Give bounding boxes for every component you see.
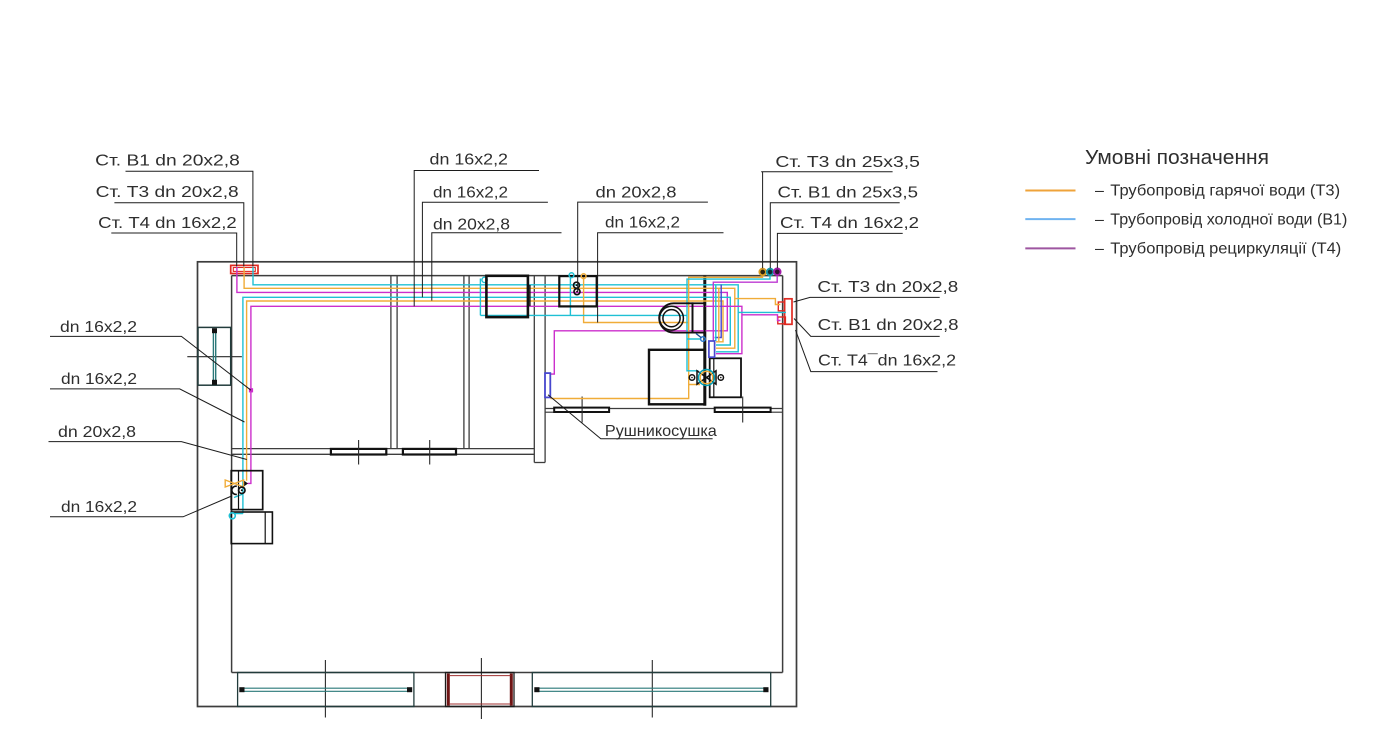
left sink fixture box 2 <box>231 512 272 544</box>
leader St.T3 TR <box>761 172 892 269</box>
stack T3 dot <box>759 269 766 276</box>
kitchen-bath wall bottom cap <box>534 462 545 464</box>
legend line B1 (blue) <box>1025 218 1075 220</box>
entry door red jamb right <box>510 674 513 706</box>
bathroom bottom wall stub left <box>545 411 554 413</box>
svg-text:Ст. Т4¯dn 16х2,2: Ст. Т4¯dn 16х2,2 <box>818 352 956 369</box>
riser stack dots <box>759 269 780 276</box>
window left frame <box>238 673 414 707</box>
leader towel label <box>548 395 713 439</box>
svg-text:–: – <box>1095 183 1104 200</box>
pipe B1 chase drop branch <box>715 285 717 341</box>
svg-text:Трубопровід холодної води (В1): Трубопровід холодної води (В1) <box>1110 211 1347 228</box>
tick room2 door <box>429 440 431 465</box>
left wall window <box>198 327 231 385</box>
left window glass cap bottom <box>212 380 217 385</box>
room bottom threshold bar 1 <box>331 449 386 455</box>
pipe T3 from riser (orange): down at WC wall to bath fixtures and towel dryer <box>550 268 762 399</box>
PIPES <box>234 267 786 514</box>
svg-text:Рушникосушка: Рушникосушка <box>605 423 717 440</box>
svg-text:dn 16х2,2: dn 16х2,2 <box>430 152 509 169</box>
legend line T3 (orange) <box>1025 190 1075 192</box>
pipe B1 blue branch into chase <box>715 285 722 338</box>
left fixture valve circle <box>239 487 245 493</box>
meter box cyan valve dot <box>569 273 574 278</box>
svg-text:dn 20х2,8: dn 20х2,8 <box>58 424 136 441</box>
svg-text:Ст. Т4 dn 16х2,2: Ст. Т4 dn 16х2,2 <box>780 215 919 232</box>
left fixture orange bowtie valve <box>225 480 243 487</box>
LEADER LINES <box>49 171 940 517</box>
water meter box <box>559 276 596 306</box>
pipe B1 lower run (cyan) with tee down to left fixture <box>243 297 730 513</box>
inner bottom wall <box>232 672 783 674</box>
partition wall B line2 <box>468 276 470 449</box>
svg-text:Трубопровід гарячої води (Т3): Трубопровід гарячої води (Т3) <box>1110 183 1340 200</box>
pipe B1 left fixture stub <box>234 494 243 514</box>
towel dryer <box>545 373 550 397</box>
toilet partition wall <box>703 276 706 406</box>
meter box orange valve dot <box>581 274 586 279</box>
pipe T4 to right connector <box>742 315 781 321</box>
tick room1 door <box>358 440 360 465</box>
entry door red jamb left <box>447 674 450 706</box>
bathroom threshold bar left <box>554 408 609 412</box>
rooms bottom wall line1 <box>232 448 535 450</box>
pipe T4 lower run (magenta) <box>248 306 742 483</box>
svg-text:–: – <box>1095 211 1104 228</box>
left window frame <box>198 327 231 385</box>
pipe B1 to right connector <box>738 311 786 313</box>
svg-text:dn 20х2,8: dn 20х2,8 <box>596 185 677 202</box>
window right glass cap L <box>534 687 539 692</box>
window left glass <box>241 687 412 689</box>
svg-text:Ст. Т3 dn 20х2,8: Ст. Т3 dn 20х2,8 <box>96 184 239 201</box>
pipe T3 meter drop <box>584 276 689 322</box>
heater connection tick <box>529 285 531 306</box>
BOTTOM WINDOWS AND DOOR <box>238 673 771 707</box>
svg-text:Ст. В1 dn 20х2,8: Ст. В1 dn 20х2,8 <box>95 153 240 170</box>
pipe B1 heater hook circle <box>482 277 487 282</box>
svg-text:dn 20х2,8: dn 20х2,8 <box>433 217 510 234</box>
leader left l1 <box>50 336 251 390</box>
pipe T4 from riser (magenta) down to chase <box>713 268 777 342</box>
leader dn16 m5 <box>598 233 724 323</box>
tick entry door <box>480 658 482 719</box>
leader St.B1 TL <box>126 171 253 266</box>
stack B1 dot <box>767 269 774 276</box>
bathroom bottom wall stub right <box>771 411 783 413</box>
entry door red bottom rail <box>449 703 511 705</box>
kitchen-bath wall line2 <box>544 276 546 463</box>
leader dn20 m4 <box>578 202 708 292</box>
tick bath door right <box>742 397 744 423</box>
leader St.B1 TR <box>770 203 899 269</box>
leader left l4 <box>50 497 231 517</box>
bath mixer valve assembly <box>689 371 723 384</box>
inner right wall <box>782 276 784 673</box>
entry door red top rail <box>449 675 511 677</box>
valve teal circle <box>699 370 715 386</box>
entry door frame <box>446 673 515 707</box>
window left glass cap R <box>407 687 412 692</box>
pipe B1 meter drop <box>569 275 571 315</box>
left sink fixture box 1 <box>231 471 263 510</box>
stack T4 dot <box>774 269 781 276</box>
svg-text:dn 16х2,2: dn 16х2,2 <box>60 319 137 336</box>
svg-text:dn 16х2,2: dn 16х2,2 <box>433 185 508 202</box>
svg-text:dn 16х2,2: dn 16х2,2 <box>61 499 137 516</box>
water meter 1 <box>574 282 580 288</box>
left window glass cap top <box>212 328 217 333</box>
bathroom bottom wall line <box>545 408 783 410</box>
bidet box <box>710 358 741 397</box>
LEGEND <box>1025 146 1347 258</box>
leader dn16 m1 <box>414 171 539 307</box>
svg-text:dn 16х2,2: dn 16х2,2 <box>61 371 137 388</box>
leader St.T3 right <box>794 297 940 302</box>
WALLS <box>198 262 797 707</box>
partition wall B line1 <box>463 276 465 449</box>
partition wall A line2 <box>396 276 398 449</box>
pipe T3 lower run (orange) with tee down to left fixture <box>247 301 723 481</box>
leader dn20 m3 <box>432 233 562 301</box>
left fixture cyan tap circle <box>229 513 235 519</box>
kitchen heater box <box>486 276 528 317</box>
pipe B1 upper run (cyan) from red box to bathroom nest <box>253 267 738 352</box>
window right glass cap R <box>763 687 768 692</box>
svg-text:dn 16х2,2: dn 16х2,2 <box>605 215 680 232</box>
bathroom threshold bar right <box>715 408 771 412</box>
inner top wall <box>232 275 783 277</box>
pipe B1 from riser (cyan): down at WC wall to mixer valve <box>687 268 770 371</box>
leader St.B1 right <box>794 319 940 337</box>
tick left-wall window <box>187 356 242 358</box>
outer wall rectangle <box>198 262 797 707</box>
svg-text:Ст. Т3 dn 20х2,8: Ст. Т3 dn 20х2,8 <box>817 279 958 296</box>
svg-text:Ст. Т3 dn 25х3,5: Ст. Т3 dn 25х3,5 <box>775 154 920 171</box>
pipe chase (blue rect) <box>709 341 715 357</box>
leader St.T3 TL <box>114 203 243 267</box>
leader St.T4 TR <box>777 233 902 268</box>
legend line T4 (purple) <box>1025 247 1075 249</box>
partition wall A line1 <box>390 276 392 449</box>
svg-text:Ст. В1 dn 20х2,8: Ст. В1 dn 20х2,8 <box>818 317 959 334</box>
window left glass cap L <box>239 687 244 692</box>
svg-text:Ст. В1 dn 25х3,5: Ст. В1 dn 25х3,5 <box>778 185 919 202</box>
left fixture D valve <box>232 486 237 494</box>
water meter 2 <box>574 289 580 295</box>
window right frame <box>532 673 770 707</box>
riser connector right wall (red) <box>778 299 792 325</box>
tick window right <box>651 660 653 718</box>
tick window left <box>324 660 326 718</box>
centerline ticks <box>187 357 742 719</box>
tick bath door left <box>581 397 583 423</box>
leader left l2 <box>50 389 245 422</box>
leader left l3 <box>49 442 247 460</box>
svg-text:–: – <box>1095 241 1104 258</box>
svg-text:Ст. Т4 dn 16х2,2: Ст. Т4 dn 16х2,2 <box>98 215 237 232</box>
window right glass <box>536 687 769 689</box>
left window glass <box>212 330 214 384</box>
valve orange circle <box>700 371 712 383</box>
inner left wall <box>231 276 233 673</box>
pipe T4 upper run (magenta) to towel dryer <box>237 267 727 374</box>
svg-text:Умовні позначення: Умовні позначення <box>1085 146 1269 169</box>
pipe T3 chase drop branch <box>718 288 720 341</box>
pipe T3 upper run (orange) <box>244 267 735 348</box>
leader St.T4 right <box>796 330 938 372</box>
room bottom threshold bar 2 <box>403 449 456 455</box>
riser connection box top-left (red) <box>231 265 258 273</box>
toilet valve dot (blue) <box>701 337 706 342</box>
pipe B1 heater loop <box>480 279 687 316</box>
leader St.T4 TL <box>111 233 236 267</box>
toilet <box>659 303 704 332</box>
rooms bottom wall line2 <box>232 453 535 455</box>
leader dn16 m2 <box>422 202 548 297</box>
leader1 end dot on T4 pipe <box>249 388 253 392</box>
kitchen-bath wall line1 <box>533 276 535 463</box>
svg-text:Трубопровід рециркуляції (Т4): Трубопровід рециркуляції (Т4) <box>1110 241 1341 258</box>
pipe T3 to right connector <box>735 299 781 305</box>
washing machine <box>649 350 705 405</box>
